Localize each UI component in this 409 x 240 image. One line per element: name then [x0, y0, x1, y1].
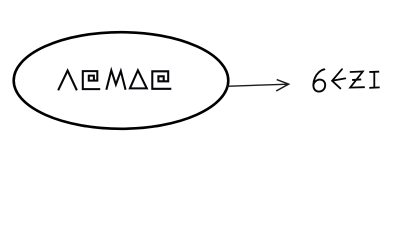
- glyph I with serifs: [370, 72, 379, 88]
- glyph lambda (caret): [59, 71, 77, 90]
- arrow head: [276, 80, 288, 91]
- glyph square-spiral 2: [152, 71, 170, 89]
- glyph triangle: [130, 70, 147, 88]
- arrow shaft: [226, 84, 288, 86]
- glyph square-spiral 1: [83, 71, 99, 89]
- glyph Z with stroke: [350, 72, 364, 88]
- glyph M: [107, 70, 126, 89]
- ellipse node: [14, 32, 229, 129]
- glyph left-arrow: [332, 69, 345, 88]
- glyph digit 6: [313, 69, 325, 91]
